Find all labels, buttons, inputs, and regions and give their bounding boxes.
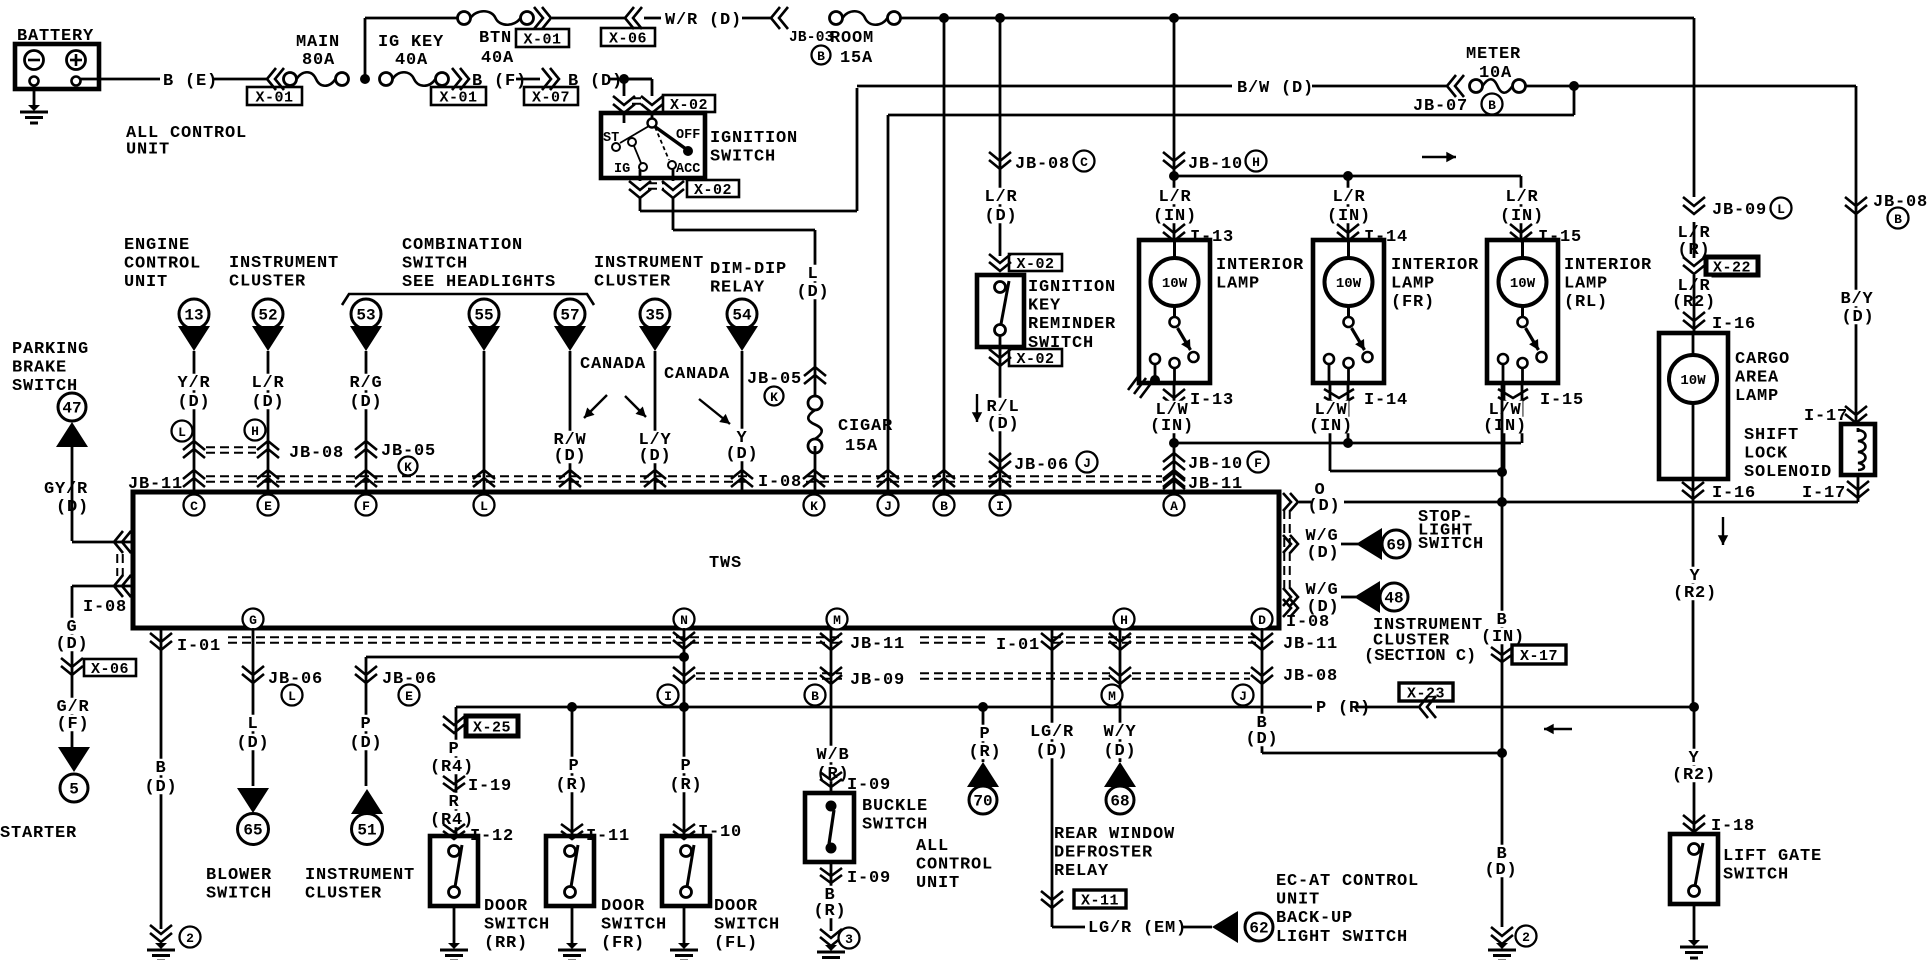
wire to lift gate switch <box>1693 707 1696 834</box>
svg-text:10A: 10A <box>1479 64 1512 83</box>
svg-text:SWITCH: SWITCH <box>710 148 776 167</box>
wire P(D) instrument cluster branch <box>365 657 368 786</box>
connector X-06 chevron <box>61 658 83 667</box>
svg-text:I: I <box>996 499 1004 514</box>
connector I-16 top <box>1683 312 1705 321</box>
svg-text:40A: 40A <box>481 49 514 68</box>
svg-text:10W: 10W <box>1680 373 1706 389</box>
svg-text:KEY: KEY <box>1028 297 1061 316</box>
W/G output 69 <box>1283 535 1291 553</box>
top bus wire to right corner <box>900 17 1694 20</box>
door switch RR S4 <box>430 836 478 906</box>
svg-text:M: M <box>1108 689 1116 704</box>
flow arrow down <box>1722 517 1724 545</box>
wire battery negative to ground <box>33 86 36 108</box>
svg-text:X-22: X-22 <box>1713 260 1751 277</box>
wire B/W to right riser <box>1574 85 1856 88</box>
connector X-25 box <box>466 716 518 736</box>
svg-text:(D): (D) <box>1306 544 1339 563</box>
svg-text:(D): (D) <box>796 283 829 302</box>
node A TWS top <box>1164 495 1185 516</box>
svg-text:CLUSTER: CLUSTER <box>305 885 382 904</box>
node mid terminal FR <box>1343 438 1353 448</box>
svg-text:L: L <box>288 689 296 704</box>
node at MAIN fuse output <box>360 74 370 84</box>
node B TWS top <box>934 495 955 516</box>
label B (IN) <box>1496 611 1509 627</box>
case ground lamp1 <box>1128 374 1140 390</box>
svg-text:13: 13 <box>184 307 203 325</box>
ground lift gate <box>1688 940 1700 946</box>
node E TWS top <box>258 495 279 516</box>
wire P(R) riser 70 <box>982 707 985 762</box>
svg-text:W/B: W/B <box>816 746 849 765</box>
svg-text:ROOM: ROOM <box>830 29 874 48</box>
svg-text:X-02: X-02 <box>1016 351 1054 368</box>
wire top bus right corner down <box>1693 18 1696 197</box>
connector X-17 box <box>1512 645 1566 664</box>
battery B1 <box>15 44 99 89</box>
wire to I-16 <box>1693 275 1696 333</box>
svg-text:ENGINE: ENGINE <box>124 236 190 255</box>
wires out of ignition switch <box>639 170 642 181</box>
svg-text:(R): (R) <box>555 776 588 795</box>
svg-text:JB-11: JB-11 <box>128 475 183 494</box>
wire to X-22 <box>1693 222 1696 258</box>
svg-text:METER: METER <box>1466 45 1521 64</box>
svg-text:JB-10: JB-10 <box>1188 455 1243 474</box>
svg-text:COMBINATION: COMBINATION <box>402 236 523 255</box>
svg-text:5: 5 <box>69 781 79 799</box>
svg-text:(D): (D) <box>984 207 1017 226</box>
svg-text:H: H <box>1120 613 1128 628</box>
svg-text:LG/R: LG/R <box>1030 723 1074 742</box>
svg-text:X-06: X-06 <box>609 31 647 48</box>
node L/W junction <box>1169 438 1179 448</box>
svg-text:SWITCH: SWITCH <box>402 255 468 274</box>
label L/R (IN) lamp RL <box>1505 188 1540 204</box>
flow arrow left <box>1544 728 1572 730</box>
svg-text:X-01: X-01 <box>255 90 293 107</box>
node N to P(D) <box>679 652 689 662</box>
svg-text:SWITCH: SWITCH <box>601 916 667 935</box>
svg-text:L/R: L/R <box>984 188 1017 207</box>
node top bus at I wire <box>995 13 1005 23</box>
node ignition feed <box>619 74 629 84</box>
circle 2 right <box>1516 926 1537 947</box>
svg-text:L: L <box>178 425 186 440</box>
svg-text:(D): (D) <box>349 734 382 753</box>
svg-text:INSTRUMENT: INSTRUMENT <box>229 254 339 273</box>
connector X-06 box <box>601 28 655 46</box>
node M TWS bottom <box>827 609 848 630</box>
svg-text:I: I <box>664 689 672 704</box>
interior lamp L1 <box>1139 240 1210 383</box>
svg-text:L/R: L/R <box>1158 188 1191 207</box>
connector JB-07 chevrons <box>1455 75 1464 97</box>
connector I-01 left below TWS <box>160 628 163 929</box>
bracket combination switch <box>342 294 594 305</box>
svg-text:C: C <box>1080 155 1088 170</box>
wire B(D) to B(IN) node <box>1262 752 1502 755</box>
svg-text:P: P <box>448 740 459 759</box>
connector X-25 chevron <box>443 716 465 725</box>
connector X-02 box reminder bottom <box>1009 349 1062 366</box>
harness JB-11 row below TWS <box>228 636 842 638</box>
connector X-02 box top <box>663 95 715 112</box>
wire H rear defroster branch W/Y <box>1119 628 1122 762</box>
label P (R) FR <box>568 757 581 773</box>
wire B(D) down to ground <box>1501 753 1504 927</box>
svg-text:53: 53 <box>356 307 375 325</box>
svg-text:REMINDER: REMINDER <box>1028 315 1116 334</box>
svg-text:I-10: I-10 <box>698 823 742 842</box>
svg-text:(D): (D) <box>1484 861 1517 880</box>
svg-text:E: E <box>264 499 272 514</box>
label Y (D) <box>736 429 749 445</box>
svg-text:CANADA: CANADA <box>580 355 646 374</box>
connector X-11 box <box>1074 890 1126 908</box>
svg-text:I-01: I-01 <box>177 637 221 656</box>
svg-text:DIM-DIP: DIM-DIP <box>710 260 787 279</box>
ground buckle <box>825 945 837 951</box>
label L (D) cigar <box>807 265 820 281</box>
arrow down at R/L <box>976 394 978 422</box>
svg-text:SWITCH: SWITCH <box>484 916 550 935</box>
svg-text:(D): (D) <box>553 447 586 466</box>
svg-text:UNIT: UNIT <box>916 874 960 893</box>
svg-text:G: G <box>249 613 257 628</box>
svg-text:X-07: X-07 <box>532 90 570 107</box>
svg-text:10W: 10W <box>1162 276 1188 292</box>
svg-text:(IN): (IN) <box>1483 417 1527 436</box>
svg-text:(R2): (R2) <box>1672 766 1716 785</box>
svg-text:(R): (R) <box>669 776 702 795</box>
connector I-12 <box>443 824 465 832</box>
svg-text:JB-07: JB-07 <box>1413 97 1468 116</box>
label L/W (IN) RL <box>1488 401 1523 417</box>
svg-text:B: B <box>940 499 948 514</box>
label L/R (D) on I riser <box>984 188 1019 204</box>
label L/W (IN) lamp1 <box>1155 401 1190 417</box>
svg-text:R: R <box>448 793 459 812</box>
svg-text:STARTER: STARTER <box>0 824 77 843</box>
svg-text:(R4): (R4) <box>430 811 474 830</box>
svg-text:LAMP: LAMP <box>1735 387 1779 406</box>
svg-text:R/G: R/G <box>349 374 382 393</box>
ground battery <box>28 105 40 111</box>
svg-text:2: 2 <box>1522 930 1530 945</box>
svg-text:I-14: I-14 <box>1364 391 1408 410</box>
label L/R (D) <box>251 374 286 390</box>
wire ignition feed down to X-02 <box>623 79 626 96</box>
label B (D) bottom right <box>1496 845 1509 861</box>
svg-text:I-19: I-19 <box>468 777 512 796</box>
svg-text:40A: 40A <box>395 51 428 70</box>
svg-text:B: B <box>1894 212 1902 227</box>
arrow canada to Y <box>699 399 730 424</box>
connector 2 chevron right <box>1491 927 1513 936</box>
circuit ref 62 <box>1245 913 1273 941</box>
svg-text:10W: 10W <box>1510 276 1536 292</box>
wire to ignition node <box>608 78 652 81</box>
svg-text:(IN): (IN) <box>1500 207 1544 226</box>
svg-text:I-15: I-15 <box>1540 391 1584 410</box>
svg-text:(D): (D) <box>251 393 284 412</box>
svg-text:J: J <box>884 499 892 514</box>
connector I-11 <box>561 824 583 832</box>
circuit ref 62 arrow <box>1212 911 1238 943</box>
connector X-07 box <box>524 87 578 105</box>
connector X-01 box 3 <box>516 29 569 47</box>
connector I-18 <box>1683 815 1705 824</box>
svg-text:REAR WINDOW: REAR WINDOW <box>1054 825 1175 844</box>
dashed pair right edge <box>1283 510 1285 592</box>
wires lamp RL down <box>1503 382 1506 472</box>
svg-text:BRAKE: BRAKE <box>12 359 67 378</box>
label L/R (IN) lamp1 <box>1158 188 1193 204</box>
svg-text:INTERIOR: INTERIOR <box>1391 256 1479 275</box>
connector X-02 chevrons bottom <box>629 181 651 190</box>
svg-text:IG KEY: IG KEY <box>378 33 444 52</box>
wire J riser to TWS <box>887 115 890 492</box>
svg-text:48: 48 <box>1384 590 1403 608</box>
svg-text:CONTROL: CONTROL <box>124 255 201 274</box>
wire B(F) to X-07 <box>516 78 540 81</box>
circle B of JB-07 <box>1482 94 1503 115</box>
label B (D) right <box>1256 714 1269 730</box>
svg-text:SWITCH: SWITCH <box>1723 866 1789 885</box>
svg-text:(FR): (FR) <box>601 934 645 953</box>
circle 3 <box>839 928 860 949</box>
svg-text:CONTROL: CONTROL <box>916 856 993 875</box>
svg-text:C: C <box>190 499 198 514</box>
svg-text:JB-09: JB-09 <box>850 671 905 690</box>
circle H of JB-10 <box>1246 151 1267 172</box>
label L/Y (D) <box>638 431 673 447</box>
wire node up to top bus <box>364 18 367 79</box>
svg-text:W/R (D): W/R (D) <box>665 11 742 30</box>
svg-text:IGNITION: IGNITION <box>1028 278 1116 297</box>
svg-text:JB-06: JB-06 <box>1014 456 1069 475</box>
circuit ref 57 <box>555 299 585 329</box>
svg-text:CLUSTER: CLUSTER <box>594 273 671 292</box>
connector X-02 box reminder top <box>1009 254 1062 271</box>
svg-text:B: B <box>1488 98 1496 113</box>
svg-text:SWITCH: SWITCH <box>206 885 272 904</box>
svg-text:69: 69 <box>1386 537 1405 555</box>
svg-text:MAIN: MAIN <box>296 33 340 52</box>
svg-text:(D): (D) <box>144 778 177 797</box>
connector X-01 chevrons <box>275 68 284 90</box>
connector I-13 bottom <box>1163 389 1185 398</box>
svg-text:62: 62 <box>1249 920 1268 938</box>
svg-text:P: P <box>680 757 691 776</box>
connector I-17 bottom <box>1847 481 1869 490</box>
circuit ref 5 starter <box>58 747 90 772</box>
circle J of JB-06 <box>1077 452 1098 473</box>
label L/W (IN) FR <box>1314 401 1349 417</box>
svg-text:(D): (D) <box>55 635 88 654</box>
node C TWS top <box>184 495 205 516</box>
connector X-02 chevrons top <box>613 96 635 105</box>
svg-text:L: L <box>247 715 258 734</box>
connector I-17 top <box>1845 406 1867 415</box>
circuit ref 69 <box>1382 530 1410 558</box>
wire cargo lamp down <box>1692 479 1695 707</box>
svg-text:15A: 15A <box>840 49 873 68</box>
svg-text:X-25: X-25 <box>473 720 511 737</box>
connector X-01 box 2 <box>431 87 486 105</box>
svg-text:INSTRUMENT: INSTRUMENT <box>594 254 704 273</box>
connector X-22 box <box>1706 257 1758 275</box>
connector X-01 box <box>247 87 302 105</box>
svg-text:BTN: BTN <box>479 29 512 48</box>
svg-text:J: J <box>1239 689 1247 704</box>
svg-text:F: F <box>1254 456 1262 471</box>
svg-text:SWITCH: SWITCH <box>862 816 928 835</box>
label Y (R2) lower <box>1688 749 1701 765</box>
svg-text:L/R: L/R <box>1332 188 1365 207</box>
connector JB-09 chevrons <box>1683 197 1705 206</box>
svg-text:I-01: I-01 <box>996 636 1040 655</box>
circle 2 left <box>180 927 201 948</box>
svg-text:JB-11: JB-11 <box>850 635 905 654</box>
connector X-17 chevron <box>1491 647 1513 655</box>
svg-text:L: L <box>807 265 818 284</box>
wire JB-07 return <box>1573 86 1576 115</box>
circuit ref 47 <box>58 393 86 421</box>
svg-text:LOCK: LOCK <box>1744 445 1788 464</box>
connector I-14 bottom <box>1324 389 1354 398</box>
connector I-15 bottom <box>1498 389 1528 398</box>
svg-text:(D): (D) <box>638 447 671 466</box>
wires lamp FR down <box>1329 382 1332 471</box>
stop light switch arrow 69 <box>1356 528 1382 560</box>
label B (D) left <box>155 759 168 775</box>
svg-text:P: P <box>568 757 579 776</box>
node meter output <box>1569 81 1579 91</box>
svg-text:P: P <box>979 725 990 744</box>
label L/R (R) <box>1677 224 1712 240</box>
svg-text:CIGAR: CIGAR <box>838 417 893 436</box>
svg-text:X-01: X-01 <box>439 90 477 107</box>
label R/W (D) <box>553 431 588 447</box>
svg-text:B: B <box>155 759 166 778</box>
svg-text:K: K <box>770 390 778 405</box>
svg-text:AREA: AREA <box>1735 369 1779 388</box>
svg-text:W/Y: W/Y <box>1103 723 1136 742</box>
wire N door switch FL branch <box>683 628 686 836</box>
svg-text:LIFT GATE: LIFT GATE <box>1723 847 1822 866</box>
svg-text:SEE HEADLIGHTS: SEE HEADLIGHTS <box>402 273 556 292</box>
connector JB-11 chevrons below lamp1 <box>1163 480 1185 489</box>
svg-text:L/R: L/R <box>1505 188 1538 207</box>
svg-text:BUCKLE: BUCKLE <box>862 797 928 816</box>
interior lamp RL L3 <box>1487 240 1558 383</box>
wire M buckle branch <box>830 628 833 793</box>
svg-text:TWS: TWS <box>709 554 742 573</box>
node H TWS bottom <box>1114 609 1135 630</box>
connector JB-08 chevrons on I riser <box>989 152 1011 161</box>
ground left B(D) <box>155 943 167 949</box>
svg-text:51: 51 <box>357 822 376 840</box>
svg-text:SOLENOID: SOLENOID <box>1744 463 1832 482</box>
svg-text:CLUSTER: CLUSTER <box>229 273 306 292</box>
svg-text:CARGO: CARGO <box>1735 350 1790 369</box>
connector X-02 chevron reminder bottom <box>989 349 1011 358</box>
svg-text:JB-03: JB-03 <box>789 30 834 46</box>
svg-text:UNIT: UNIT <box>1276 891 1320 910</box>
wire D branch to B(D) <box>1261 628 1264 753</box>
label Y/R (D) <box>177 374 212 390</box>
svg-text:LAMP: LAMP <box>1216 275 1260 294</box>
svg-text:X-02: X-02 <box>1016 256 1054 273</box>
svg-text:DOOR: DOOR <box>714 897 758 916</box>
svg-text:(R): (R) <box>813 902 846 921</box>
wires into ignition switch <box>623 112 626 123</box>
node F TWS top <box>356 495 377 516</box>
svg-text:CANADA: CANADA <box>664 365 730 384</box>
svg-text:I-13: I-13 <box>1190 391 1234 410</box>
svg-text:35: 35 <box>645 307 664 325</box>
TWS box U1 <box>133 492 1279 628</box>
svg-text:LG/R (EM): LG/R (EM) <box>1088 919 1187 938</box>
svg-text:P (R): P (R) <box>1316 699 1371 718</box>
svg-text:(D): (D) <box>56 498 89 517</box>
arrow canada to R/W <box>584 395 607 418</box>
svg-text:80A: 80A <box>302 51 335 70</box>
connector X-06 box left <box>84 659 136 676</box>
wire reminder switch down to TWS <box>999 347 1002 492</box>
svg-text:X-11: X-11 <box>1081 893 1119 910</box>
svg-text:IGNITION: IGNITION <box>710 129 798 148</box>
door switch FL S6 <box>662 836 710 906</box>
svg-text:(D): (D) <box>1841 308 1874 327</box>
svg-text:(D): (D) <box>1103 742 1136 761</box>
svg-text:I-08: I-08 <box>758 473 802 492</box>
node B(IN) top <box>1497 467 1507 477</box>
label P (R) 70 <box>979 725 992 741</box>
harness JB-09 row below TWS <box>696 672 842 674</box>
svg-text:N: N <box>680 613 688 628</box>
svg-text:INTERIOR: INTERIOR <box>1564 256 1652 275</box>
wire LG/R defroster relay branch <box>1051 628 1054 927</box>
circle B of JB-03 <box>812 46 831 65</box>
cargo area lamp L4 <box>1659 333 1728 479</box>
svg-text:GY/R: GY/R <box>44 480 88 499</box>
label B/Y (D) <box>1840 290 1875 306</box>
svg-text:(D): (D) <box>725 445 758 464</box>
label R/L (D) <box>986 398 1021 414</box>
connector I-10 <box>673 824 695 832</box>
svg-text:JB-11: JB-11 <box>1283 635 1338 654</box>
wire door FR branch <box>571 707 574 836</box>
svg-text:68: 68 <box>1110 793 1129 811</box>
svg-text:H: H <box>251 424 259 439</box>
svg-text:2: 2 <box>186 931 194 946</box>
circle C of JB-08 <box>1074 151 1095 172</box>
svg-text:54: 54 <box>732 307 752 325</box>
svg-text:ALL: ALL <box>916 837 949 856</box>
svg-text:I-16: I-16 <box>1712 484 1756 503</box>
svg-text:BLOWER: BLOWER <box>206 866 272 885</box>
label B (R) <box>824 886 837 902</box>
ignition key reminder switch S2 <box>977 275 1024 347</box>
svg-text:BACK-UP: BACK-UP <box>1276 909 1353 928</box>
label R (R4) <box>448 793 461 809</box>
svg-text:J: J <box>1083 456 1091 471</box>
